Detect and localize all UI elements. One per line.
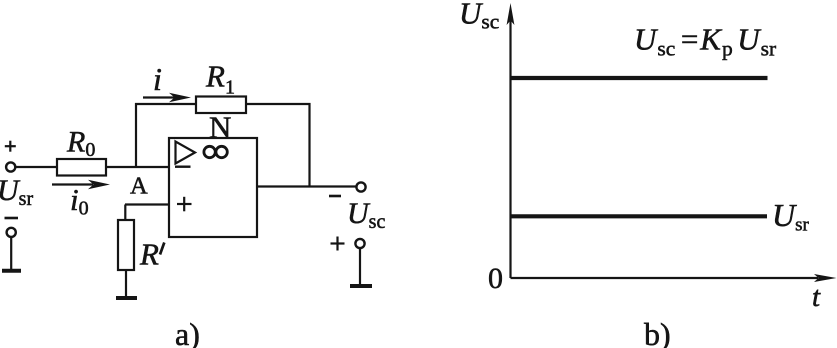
y axis Usc xyxy=(507,3,515,278)
Usr level line xyxy=(511,214,767,218)
wire output terminal to ground xyxy=(359,249,361,286)
ground output xyxy=(350,284,372,288)
op-amp gain infinity symbol xyxy=(204,146,227,157)
svg-text:A: A xyxy=(130,173,148,200)
svg-text:Usc: Usc xyxy=(347,197,385,233)
svg-text:i: i xyxy=(153,61,162,97)
op-amp plus input marker xyxy=(177,197,192,212)
svg-text:0: 0 xyxy=(488,262,503,295)
svg-text:i0: i0 xyxy=(70,182,89,220)
wire node A up to feedback xyxy=(135,103,137,167)
wire lower terminal to ground xyxy=(10,238,12,270)
wire feedback left horizontal xyxy=(135,103,196,105)
op-amp U1 box xyxy=(169,138,257,237)
svg-text:Usr: Usr xyxy=(772,197,810,236)
op-amp inverting underline xyxy=(175,165,191,167)
ground R' xyxy=(116,296,137,300)
wire op-amp plus input to R' xyxy=(125,203,169,205)
wire R' to ground xyxy=(125,270,127,297)
wire R0 to op-amp inverting input through node A xyxy=(106,166,170,168)
input terminal + circle xyxy=(6,162,15,171)
svg-text:R1: R1 xyxy=(205,59,235,99)
wire feedback down to output xyxy=(308,103,310,187)
svg-text:Usc: Usc xyxy=(459,0,499,34)
wire down to R' xyxy=(124,205,126,221)
svg-text:t: t xyxy=(812,281,821,313)
wire input terminal to R0 xyxy=(16,166,57,168)
wire op-amp output xyxy=(257,185,356,187)
Usc level line xyxy=(511,76,768,80)
svg-text:a): a) xyxy=(175,316,200,348)
x axis t xyxy=(511,274,837,282)
svg-text:N: N xyxy=(209,110,231,145)
svg-text:R: R xyxy=(139,237,159,272)
op-amp triangle xyxy=(176,142,196,164)
svg-text:R0: R0 xyxy=(66,126,95,162)
minus sign output terminal xyxy=(329,195,341,198)
plus sign input terminal xyxy=(5,141,16,152)
svg-text:b): b) xyxy=(644,316,671,348)
current arrow i xyxy=(143,93,191,102)
resistor R0 xyxy=(57,159,106,176)
svg-text:Usr: Usr xyxy=(0,174,33,210)
current arrow i0 xyxy=(52,180,110,189)
wire R1 to right corner xyxy=(246,103,311,105)
output lower terminal circle xyxy=(355,239,364,248)
minus sign input lower terminal xyxy=(5,217,19,220)
resistor R' xyxy=(118,220,134,270)
resistor R1 xyxy=(196,97,246,114)
input lower terminal circle xyxy=(7,228,16,237)
ground input xyxy=(2,269,21,273)
output terminal circle xyxy=(356,182,365,191)
plus sign output lower terminal xyxy=(331,237,345,251)
svg-text:Usc=KpUsr: Usc=KpUsr xyxy=(634,22,776,61)
